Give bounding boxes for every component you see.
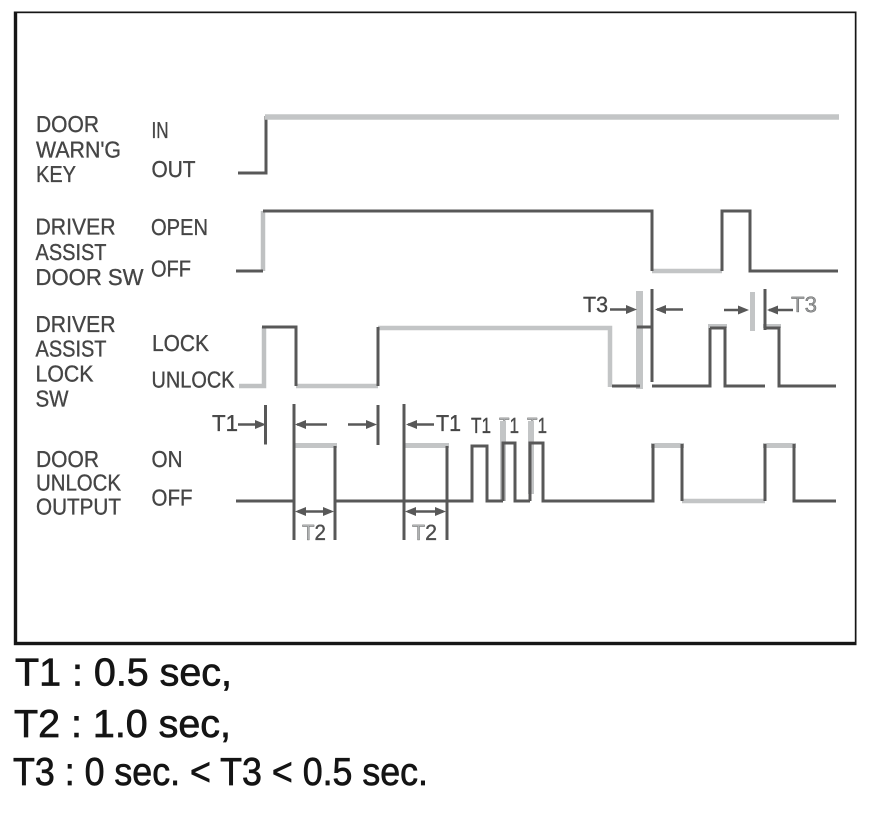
signal OUTPUT: gray bar pulse C bbox=[528, 421, 534, 494]
label OFF (door sw) bbox=[151, 256, 191, 282]
svg-text:OPEN: OPEN bbox=[151, 214, 208, 240]
svg-text:T3: T3 bbox=[583, 292, 608, 317]
label DRIVER ASSIST LOCK SW bbox=[36, 311, 116, 412]
T1 arrow left from pulse2 bbox=[406, 420, 434, 429]
label T1 a bbox=[471, 413, 491, 438]
T1 arrow right to tick 2 bbox=[348, 420, 377, 429]
svg-text:T1: T1 bbox=[212, 410, 238, 436]
signal OUTPUT: gray cap pulse E bbox=[763, 443, 796, 448]
T1 dimension tick 2 bbox=[377, 405, 380, 445]
caption line T2 bbox=[14, 703, 231, 746]
label T1 second bbox=[436, 410, 461, 436]
label IN bbox=[152, 117, 169, 143]
svg-text:T3: T3 bbox=[791, 292, 817, 317]
signal OUTPUT: gray bar pulse B bbox=[500, 421, 506, 501]
label DOOR WARN'G KEY bbox=[36, 111, 121, 187]
label DRIVER ASSIST DOOR SW bbox=[36, 214, 144, 291]
signal LOCK SW: long gray LOCK line bbox=[378, 328, 610, 387]
label T1 first bbox=[212, 410, 238, 436]
svg-text:WARN'G: WARN'G bbox=[36, 137, 121, 163]
label ON bbox=[152, 446, 183, 472]
label DOOR UNLOCK OUTPUT bbox=[36, 446, 122, 520]
signal OUTPUT: gray cap pulse 1 bbox=[294, 443, 337, 448]
label OUT bbox=[152, 156, 196, 182]
svg-text:T3 : 0 sec. < T3 < 0.5 sec.: T3 : 0 sec. < T3 < 0.5 sec. bbox=[13, 751, 428, 794]
signal OUTPUT: dark trace bbox=[236, 443, 836, 501]
label T2 first bbox=[302, 520, 326, 545]
signal OUTPUT: gray low segment D-E bbox=[682, 499, 765, 504]
svg-text:SW: SW bbox=[36, 386, 69, 412]
T3 right arrow right bbox=[724, 306, 749, 315]
signal LOCK SW: gray dimension bar T3 left bbox=[636, 291, 643, 389]
signal LOCK SW: gray dimension bar T3 right bbox=[750, 292, 755, 331]
signal DOOR SW: rising edge gray bbox=[261, 211, 266, 271]
signal OUTPUT: gray cap pulse D bbox=[651, 443, 684, 448]
svg-text:OFF: OFF bbox=[152, 485, 193, 511]
svg-text:UNLOCK: UNLOCK bbox=[36, 470, 122, 496]
svg-text:DOOR: DOOR bbox=[36, 446, 99, 472]
T1 arrow right to tick bbox=[238, 420, 266, 429]
signal OUTPUT: pulse2 right edge extended bbox=[446, 446, 449, 540]
svg-text:T1: T1 bbox=[471, 413, 491, 438]
svg-text:T2: T2 bbox=[412, 520, 437, 545]
signal KEY: low segment + rising edge (dark) bbox=[238, 116, 266, 173]
signal OUTPUT: gray cap pulse 2 bbox=[404, 443, 449, 448]
svg-text:T2: T2 bbox=[302, 520, 326, 545]
svg-text:ON: ON bbox=[152, 446, 183, 472]
signal OUTPUT: pulse1 right edge extended bbox=[334, 446, 337, 540]
outer frame bbox=[16, 12, 857, 644]
signal DOOR SW: dark trace bbox=[236, 211, 838, 271]
signal DOOR SW: low gray segment bbox=[652, 269, 722, 274]
T3 dimension line right (rise edge extended) bbox=[764, 289, 767, 330]
svg-text:OFF: OFF bbox=[151, 256, 191, 282]
svg-text:KEY: KEY bbox=[36, 161, 76, 187]
svg-text:LOCK: LOCK bbox=[36, 361, 95, 387]
signal LOCK SW: gray cap pulse 765 bbox=[763, 324, 781, 328]
T3 left arrow right bbox=[610, 305, 637, 314]
T3 left arrow left bbox=[655, 305, 683, 314]
label T1 b bbox=[499, 413, 519, 438]
label OPEN bbox=[151, 214, 208, 240]
signal LOCK SW: gray cap pulse 710 bbox=[708, 324, 727, 328]
svg-text:DRIVER: DRIVER bbox=[36, 311, 116, 337]
T3 right arrow left bbox=[767, 306, 793, 315]
label UNLOCK level bbox=[152, 367, 236, 393]
caption line T3 bbox=[13, 751, 428, 794]
signal LOCK SW: gray low segment bbox=[296, 384, 378, 389]
label T3 right bbox=[791, 292, 817, 317]
signal LOCK SW: gray rising edge first pulse bbox=[239, 327, 264, 386]
signal OUTPUT: pulse2 left edge extended bbox=[403, 404, 406, 540]
svg-text:DOOR: DOOR bbox=[36, 111, 99, 137]
svg-text:DRIVER: DRIVER bbox=[36, 214, 116, 240]
svg-text:ASSIST: ASSIST bbox=[36, 336, 107, 362]
T1 arrow left from pulse1 bbox=[295, 420, 327, 429]
T1 dimension tick 1 bbox=[264, 405, 267, 445]
label T3 left bbox=[583, 292, 608, 317]
T2 double arrow 1 bbox=[295, 507, 334, 516]
svg-text:LOCK: LOCK bbox=[152, 330, 210, 356]
signal KEY: IN high line (light gray) bbox=[265, 114, 839, 120]
T2 double arrow 2 bbox=[405, 507, 446, 516]
svg-text:OUT: OUT bbox=[152, 156, 196, 182]
svg-text:T1 : 0.5 sec,: T1 : 0.5 sec, bbox=[15, 652, 232, 695]
T3 dimension tick left (fall edge extended) bbox=[651, 289, 654, 382]
svg-text:UNLOCK: UNLOCK bbox=[152, 367, 236, 393]
svg-text:ASSIST: ASSIST bbox=[36, 239, 107, 265]
signal LOCK SW: dark trace bbox=[262, 327, 836, 386]
label T1 c bbox=[527, 413, 547, 438]
caption line T1 bbox=[15, 652, 232, 695]
svg-text:DOOR SW: DOOR SW bbox=[36, 264, 144, 290]
svg-text:OUTPUT: OUTPUT bbox=[36, 494, 121, 520]
svg-text:IN: IN bbox=[152, 117, 169, 143]
label OFF (output) bbox=[152, 485, 193, 511]
svg-text:T1: T1 bbox=[436, 410, 461, 436]
svg-text:T2 : 1.0 sec,: T2 : 1.0 sec, bbox=[14, 703, 231, 746]
signal OUTPUT: pulse1 left edge extended bbox=[293, 404, 296, 540]
label LOCK level bbox=[152, 330, 210, 356]
label T2 second bbox=[412, 520, 437, 545]
